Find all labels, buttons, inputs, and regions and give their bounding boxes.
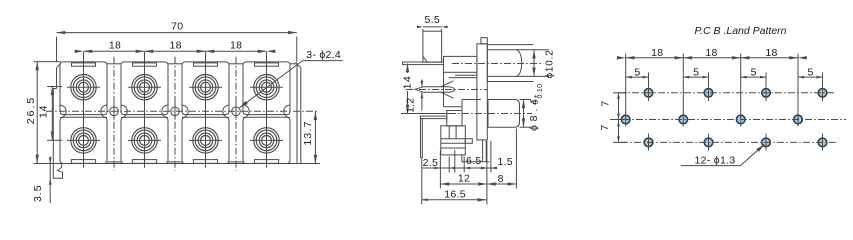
- jack circle r7.3 col1 y140.4: [76, 133, 91, 148]
- upper barrel inner bottom / phi10.2 extension: [487, 75, 549, 77]
- dim70 right extension: [296, 37, 298, 63]
- pattern dim5 line: [683, 76, 708, 78]
- p dim18 arrow: [789, 56, 798, 59]
- module 3 left ear: [182, 105, 188, 117]
- side pin: [461, 155, 463, 162]
- svg-text:70: 70: [171, 21, 183, 33]
- side housing upper block: [444, 56, 477, 72]
- module column 3 upper square: [182, 62, 229, 115]
- pattern hole column line lower: [648, 134, 650, 151]
- mounting hole: [110, 107, 119, 116]
- svg-text:26.5: 26.5: [25, 96, 37, 124]
- side lower housing v1: [448, 126, 450, 139]
- leader line 3-phi2.4: [240, 61, 303, 108]
- svg-text:5: 5: [807, 66, 813, 78]
- jack circle r4.9 col1 y140.4: [79, 136, 89, 146]
- module column 2 lower square: [121, 117, 168, 163]
- module 1 left ear: [60, 105, 66, 117]
- side lower housing line2: [441, 142, 466, 144]
- side right tab: [465, 139, 472, 144]
- dim14 bottom extension: [47, 139, 62, 141]
- jack circle r4.9 col4 y140.4: [262, 136, 272, 146]
- svg-text:14: 14: [38, 104, 50, 118]
- leader line 12-phi1.3: [741, 144, 765, 165]
- module 2 left ear: [121, 105, 127, 117]
- pattern dim7 ext1: [613, 92, 627, 94]
- jack horizontal crosshair col4: [250, 139, 283, 141]
- hole row3: [704, 138, 713, 147]
- svg-text:18: 18: [705, 47, 717, 59]
- column 1 vertical centerline: [83, 52, 85, 168]
- jack horizontal crosshair col2: [128, 139, 161, 141]
- module 4 right ear: [284, 105, 290, 117]
- svg-text:2.5: 2.5: [423, 157, 439, 169]
- leader arrow: [240, 101, 248, 108]
- ext 6.5 left: [463, 157, 465, 173]
- module 4 left ear: [243, 105, 249, 117]
- mounting hole vertical crosshair: [174, 103, 176, 120]
- jack circle r4.9 col2 y140.4: [140, 136, 150, 146]
- ext mid pin: [454, 150, 456, 173]
- dim26.5 line: [36, 62, 38, 164]
- module column 1 upper square: [60, 62, 107, 115]
- svg-text:5: 5: [751, 66, 757, 78]
- pattern dim5 line: [798, 76, 823, 78]
- svg-text:12- ϕ1.3: 12- ϕ1.3: [695, 155, 736, 167]
- dim14 line: [51, 87, 53, 141]
- wire body right outer edge: [300, 68, 302, 164]
- jack circle r4.9 col4 y87.2: [262, 82, 272, 92]
- svg-text:1.5: 1.5: [497, 156, 513, 168]
- svg-text:0: 0: [533, 100, 540, 104]
- svg-text:ϕ10.2: ϕ10.2: [545, 49, 556, 78]
- upper barrel inner top / phi10.2 extension: [487, 49, 549, 51]
- p dim18 arrow: [626, 56, 635, 59]
- jack horizontal crosshair col1: [67, 139, 100, 141]
- pattern hole column line lower: [708, 134, 710, 151]
- module column 3 lower square: [182, 117, 229, 163]
- dim70 left extension: [56, 37, 58, 63]
- hole row3: [644, 138, 653, 147]
- jack horizontal crosshair col2: [128, 86, 161, 88]
- wire top web right end: [290, 63, 297, 65]
- svg-text:1.2: 1.2: [405, 98, 417, 114]
- svg-text:8: 8: [498, 173, 504, 185]
- hole row1: [704, 89, 713, 98]
- pattern hole column line lower: [822, 134, 824, 151]
- jack circle r12.7 col3 y87.2: [193, 75, 218, 100]
- module 1 top slot: [72, 63, 96, 66]
- svg-text:18: 18: [765, 47, 777, 59]
- label underline: [681, 165, 741, 167]
- module 1 right ear: [101, 105, 107, 117]
- hole row3: [762, 138, 771, 147]
- jack circle r12.7 col2 y140.4: [132, 128, 157, 153]
- pattern hole column line upper: [822, 73, 824, 102]
- svg-text:7: 7: [600, 100, 612, 106]
- p dim18 arrow: [683, 56, 692, 59]
- hole row2: [794, 115, 803, 124]
- module 3 top slot: [194, 63, 218, 66]
- side lug upper funnel diagonal: [441, 81, 454, 87]
- dim18 arrow: [136, 50, 145, 53]
- upper barrel left edge: [486, 45, 488, 82]
- ext 2.5 left / 12 left: [439, 150, 441, 189]
- side upper lug centerline: [406, 89, 487, 91]
- p dim18 arrow: [741, 56, 750, 59]
- jack circle r7.3 col3 y140.4: [198, 133, 213, 148]
- pattern dim5 line: [626, 76, 649, 78]
- dim18 arrow: [267, 50, 276, 53]
- dim18 arrow: [206, 50, 215, 53]
- dim18 arrow: [197, 50, 206, 53]
- module 4 bottom slot: [254, 160, 278, 164]
- jack horizontal crosshair col4: [250, 86, 283, 88]
- side top back block: [423, 31, 442, 62]
- svg-text:13.7: 13.7: [302, 120, 314, 145]
- pattern row1 centerline: [619, 92, 836, 94]
- svg-text:3- ϕ2.4: 3- ϕ2.4: [306, 49, 341, 61]
- jack circle r12.7 col4 y87.2: [254, 75, 279, 100]
- hole row3: [818, 138, 827, 147]
- side dim14 line lower: [407, 91, 409, 114]
- column 3 vertical centerline: [205, 52, 207, 168]
- dim5.5 left extension: [422, 29, 424, 31]
- wire bottom web 3: [229, 161, 243, 163]
- svg-text:5: 5: [693, 66, 699, 78]
- svg-text:18: 18: [651, 47, 663, 59]
- svg-text:6.5: 6.5: [466, 155, 482, 167]
- side back lip: [403, 62, 444, 65]
- dim14 top extension: [47, 86, 62, 88]
- pattern row3 centerline: [621, 141, 838, 143]
- svg-text:5.5: 5.5: [425, 14, 441, 26]
- jack circle r10.3 col2 y140.4: [134, 130, 155, 151]
- side block chamfer: [423, 56, 428, 62]
- jack circle r10.3 col1 y140.4: [73, 130, 94, 151]
- jack circle r7.3 col3 y87.2: [198, 80, 213, 95]
- wire body left edge upper: [56, 68, 58, 89]
- leader arrow 12-phi1.3: [756, 144, 764, 151]
- pattern dim7 line lower: [618, 120, 620, 143]
- side lug lower funnel diagonal: [441, 92, 454, 98]
- hole row2: [679, 115, 688, 124]
- wire body top-right chamfer: [296, 62, 301, 68]
- jack circle r7.3 col1 y87.2: [76, 80, 91, 95]
- side housing line: [462, 99, 481, 101]
- upper barrel end arc: [516, 50, 522, 77]
- ext barrel end / 8 right: [515, 129, 517, 189]
- dim26.5 bottom extension: [34, 163, 54, 165]
- column 4 vertical centerline: [266, 52, 268, 168]
- pattern column line: [625, 54, 627, 127]
- dim13.7 line: [314, 111, 316, 163]
- jack circle r4.9 col3 y87.2: [201, 82, 211, 92]
- p dim18 arrow: [732, 56, 741, 59]
- label 3-phi2.4 underline: [303, 60, 343, 62]
- jack circle r12.7 col1 y87.2: [71, 75, 96, 100]
- side upper jack centerline: [452, 63, 543, 65]
- mounting hole: [232, 107, 241, 116]
- svg-text:18: 18: [109, 39, 121, 51]
- dim phi10.2 line: [533, 50, 535, 77]
- jack horizontal crosshair col3: [189, 86, 222, 88]
- ext plate front / shared: [486, 141, 488, 205]
- side back pin: [421, 119, 423, 158]
- column 2 vertical centerline: [144, 52, 146, 168]
- side dim14 line upper: [407, 64, 409, 74]
- module 1 bottom slot: [71, 160, 95, 164]
- jack horizontal crosshair col1: [67, 86, 100, 88]
- jack circle r10.3 col3 y87.2: [195, 77, 216, 98]
- wire top web 1: [107, 63, 121, 65]
- jack circle r12.7 col2 y87.2: [132, 75, 157, 100]
- module 3 bottom slot: [193, 160, 217, 164]
- hole row1: [644, 89, 653, 98]
- side housing step line b: [449, 77, 477, 79]
- upper barrel outer top line: [487, 44, 533, 46]
- svg-text:7: 7: [599, 124, 611, 130]
- side lower housing v2: [455, 126, 457, 139]
- wire body bottom edge: [53, 163, 300, 165]
- jack circle r12.7 col1 y140.4: [71, 128, 96, 153]
- pattern column line: [797, 54, 799, 127]
- jack circle r4.9 col1 y87.2: [79, 82, 89, 92]
- gap dash-dot centerline: [113, 57, 115, 171]
- ext 1.5 right: [490, 141, 492, 173]
- wire body left edge lower: [52, 89, 54, 164]
- side upper pin lug tapered: [415, 87, 454, 93]
- dim phi8.4 line: [523, 100, 525, 128]
- jack circle r10.3 col2 y87.2: [134, 77, 155, 98]
- pattern dim5 line: [741, 76, 766, 78]
- side plate pin right: [485, 140, 487, 162]
- module column 1 lower square: [60, 117, 107, 163]
- dim5.5 right extension: [441, 29, 443, 31]
- dim18 arrow: [75, 50, 84, 53]
- jack circle r12.7 col4 y140.4: [254, 128, 279, 153]
- svg-text:14: 14: [402, 75, 414, 90]
- dim18 arrow: [145, 50, 154, 53]
- pattern hole column line lower: [765, 134, 767, 151]
- svg-text:P.C B .Land Pattern: P.C B .Land Pattern: [694, 25, 786, 37]
- pattern hole column line upper: [648, 73, 650, 102]
- p dim18 arrow: [798, 56, 807, 59]
- module 3 right ear: [223, 105, 229, 117]
- side housing vertical: [461, 100, 463, 111]
- svg-text:12: 12: [458, 173, 470, 185]
- jack circle r10.3 col1 y87.2: [73, 77, 94, 98]
- svg-text:18: 18: [230, 39, 242, 51]
- jack circle r12.7 col3 y140.4: [193, 128, 218, 153]
- jack circle r4.9 col3 y140.4: [201, 136, 211, 146]
- dim13.7 bottom extension: [299, 163, 320, 165]
- side plate top cap: [481, 38, 487, 44]
- dim18 arrow: [84, 50, 93, 53]
- dim18 line: [84, 50, 267, 52]
- side dim14 bottom extension: [401, 113, 449, 115]
- wire bottom web 2: [168, 161, 182, 163]
- wire top web 3: [229, 63, 243, 65]
- dim16.5 line: [422, 199, 487, 201]
- wire body right inner edge: [296, 64, 298, 164]
- jack circle r7.3 col2 y87.2: [137, 80, 152, 95]
- svg-text:5: 5: [634, 66, 640, 78]
- side housing left edge: [443, 72, 445, 106]
- dim row1 line: [422, 167, 497, 169]
- module 2 top slot: [133, 63, 157, 66]
- hole row2: [621, 115, 630, 124]
- dim1.2 upper line: [421, 80, 423, 87]
- module 4 top slot: [255, 63, 279, 66]
- mounting hole: [171, 107, 180, 116]
- module 2 bottom slot: [132, 160, 156, 164]
- side lower jack centerline: [449, 113, 532, 115]
- mounting hole vertical crosshair: [113, 103, 115, 120]
- dim1.2 lower line: [421, 92, 423, 110]
- side housing step line a: [455, 74, 477, 76]
- svg-text:3.5: 3.5: [32, 184, 44, 202]
- pattern row2 centerline: [610, 119, 846, 121]
- mounting hole vertical crosshair: [235, 103, 237, 120]
- front view horizontal centerline: [46, 110, 317, 112]
- wire body left step: [53, 88, 56, 90]
- pattern dim7 ext2: [613, 119, 627, 121]
- hole row2: [736, 115, 745, 124]
- lower barrel: [488, 100, 520, 128]
- jack circle r7.3 col2 y140.4: [137, 133, 152, 148]
- jack circle r7.3 col4 y87.2: [259, 80, 274, 95]
- p dim18 arrow: [617, 56, 626, 59]
- gap dash-dot centerline: [174, 57, 176, 171]
- pattern hole column line upper: [765, 73, 767, 102]
- jack circle r10.3 col4 y87.2: [256, 77, 277, 98]
- hole row1: [818, 89, 827, 98]
- pattern column line: [682, 54, 684, 127]
- dim18 arrow: [258, 50, 267, 53]
- ext 2.5 right: [448, 157, 450, 173]
- pattern hole column line upper: [708, 73, 710, 102]
- dim12 and dim8 line: [440, 183, 516, 185]
- module column 4 lower square: [243, 117, 290, 163]
- wire top web 2: [168, 63, 182, 65]
- module column 4 upper square: [243, 62, 290, 115]
- wire bottom web 1: [107, 161, 121, 163]
- pattern dim18 line: [626, 57, 798, 59]
- dim26.5 top extension: [34, 61, 61, 63]
- upper barrel outer bottom line: [487, 81, 533, 83]
- dim5.5 line: [423, 26, 442, 28]
- side plate pin left: [482, 140, 484, 162]
- hole row1: [762, 89, 771, 98]
- ext back pin / 16.5 left: [421, 158, 423, 205]
- side lower housing line1: [441, 138, 466, 140]
- p dim18 arrow: [675, 56, 684, 59]
- side housing step line: [444, 106, 463, 108]
- jack circle r7.3 col4 y140.4: [259, 133, 274, 148]
- jack circle r10.3 col3 y140.4: [195, 130, 216, 151]
- module 2 right ear: [162, 105, 168, 117]
- pattern dim7 line upper: [618, 93, 620, 120]
- dim phi8.4 bottom extension: [520, 126, 532, 128]
- svg-text:+: +: [533, 94, 540, 98]
- bottom-left leg with notch: [53, 164, 62, 179]
- dim70 line: [57, 32, 297, 34]
- side lower pin lug bar: [421, 116, 447, 119]
- side mounting plate: [477, 44, 487, 140]
- side lower housing line3: [441, 147, 466, 149]
- dim3.5 line: [49, 157, 51, 204]
- svg-text:18: 18: [169, 39, 181, 51]
- dim phi8.4 top extension: [520, 99, 532, 101]
- svg-text:16.5: 16.5: [444, 188, 466, 200]
- jack circle r10.3 col4 y140.4: [256, 130, 277, 151]
- side step block: [447, 111, 462, 126]
- lower barrel left edge: [487, 100, 489, 128]
- pattern dim7 ext3: [613, 141, 627, 143]
- side lower housing block: [441, 126, 466, 155]
- module column 2 upper square: [121, 62, 168, 115]
- wire body top-left chamfer: [57, 62, 62, 68]
- gap dash-dot centerline: [235, 57, 237, 171]
- jack horizontal crosshair col3: [189, 139, 222, 141]
- side bottom foot line: [462, 161, 490, 163]
- jack circle r4.9 col2 y87.2: [140, 82, 150, 92]
- pattern column line: [740, 54, 742, 127]
